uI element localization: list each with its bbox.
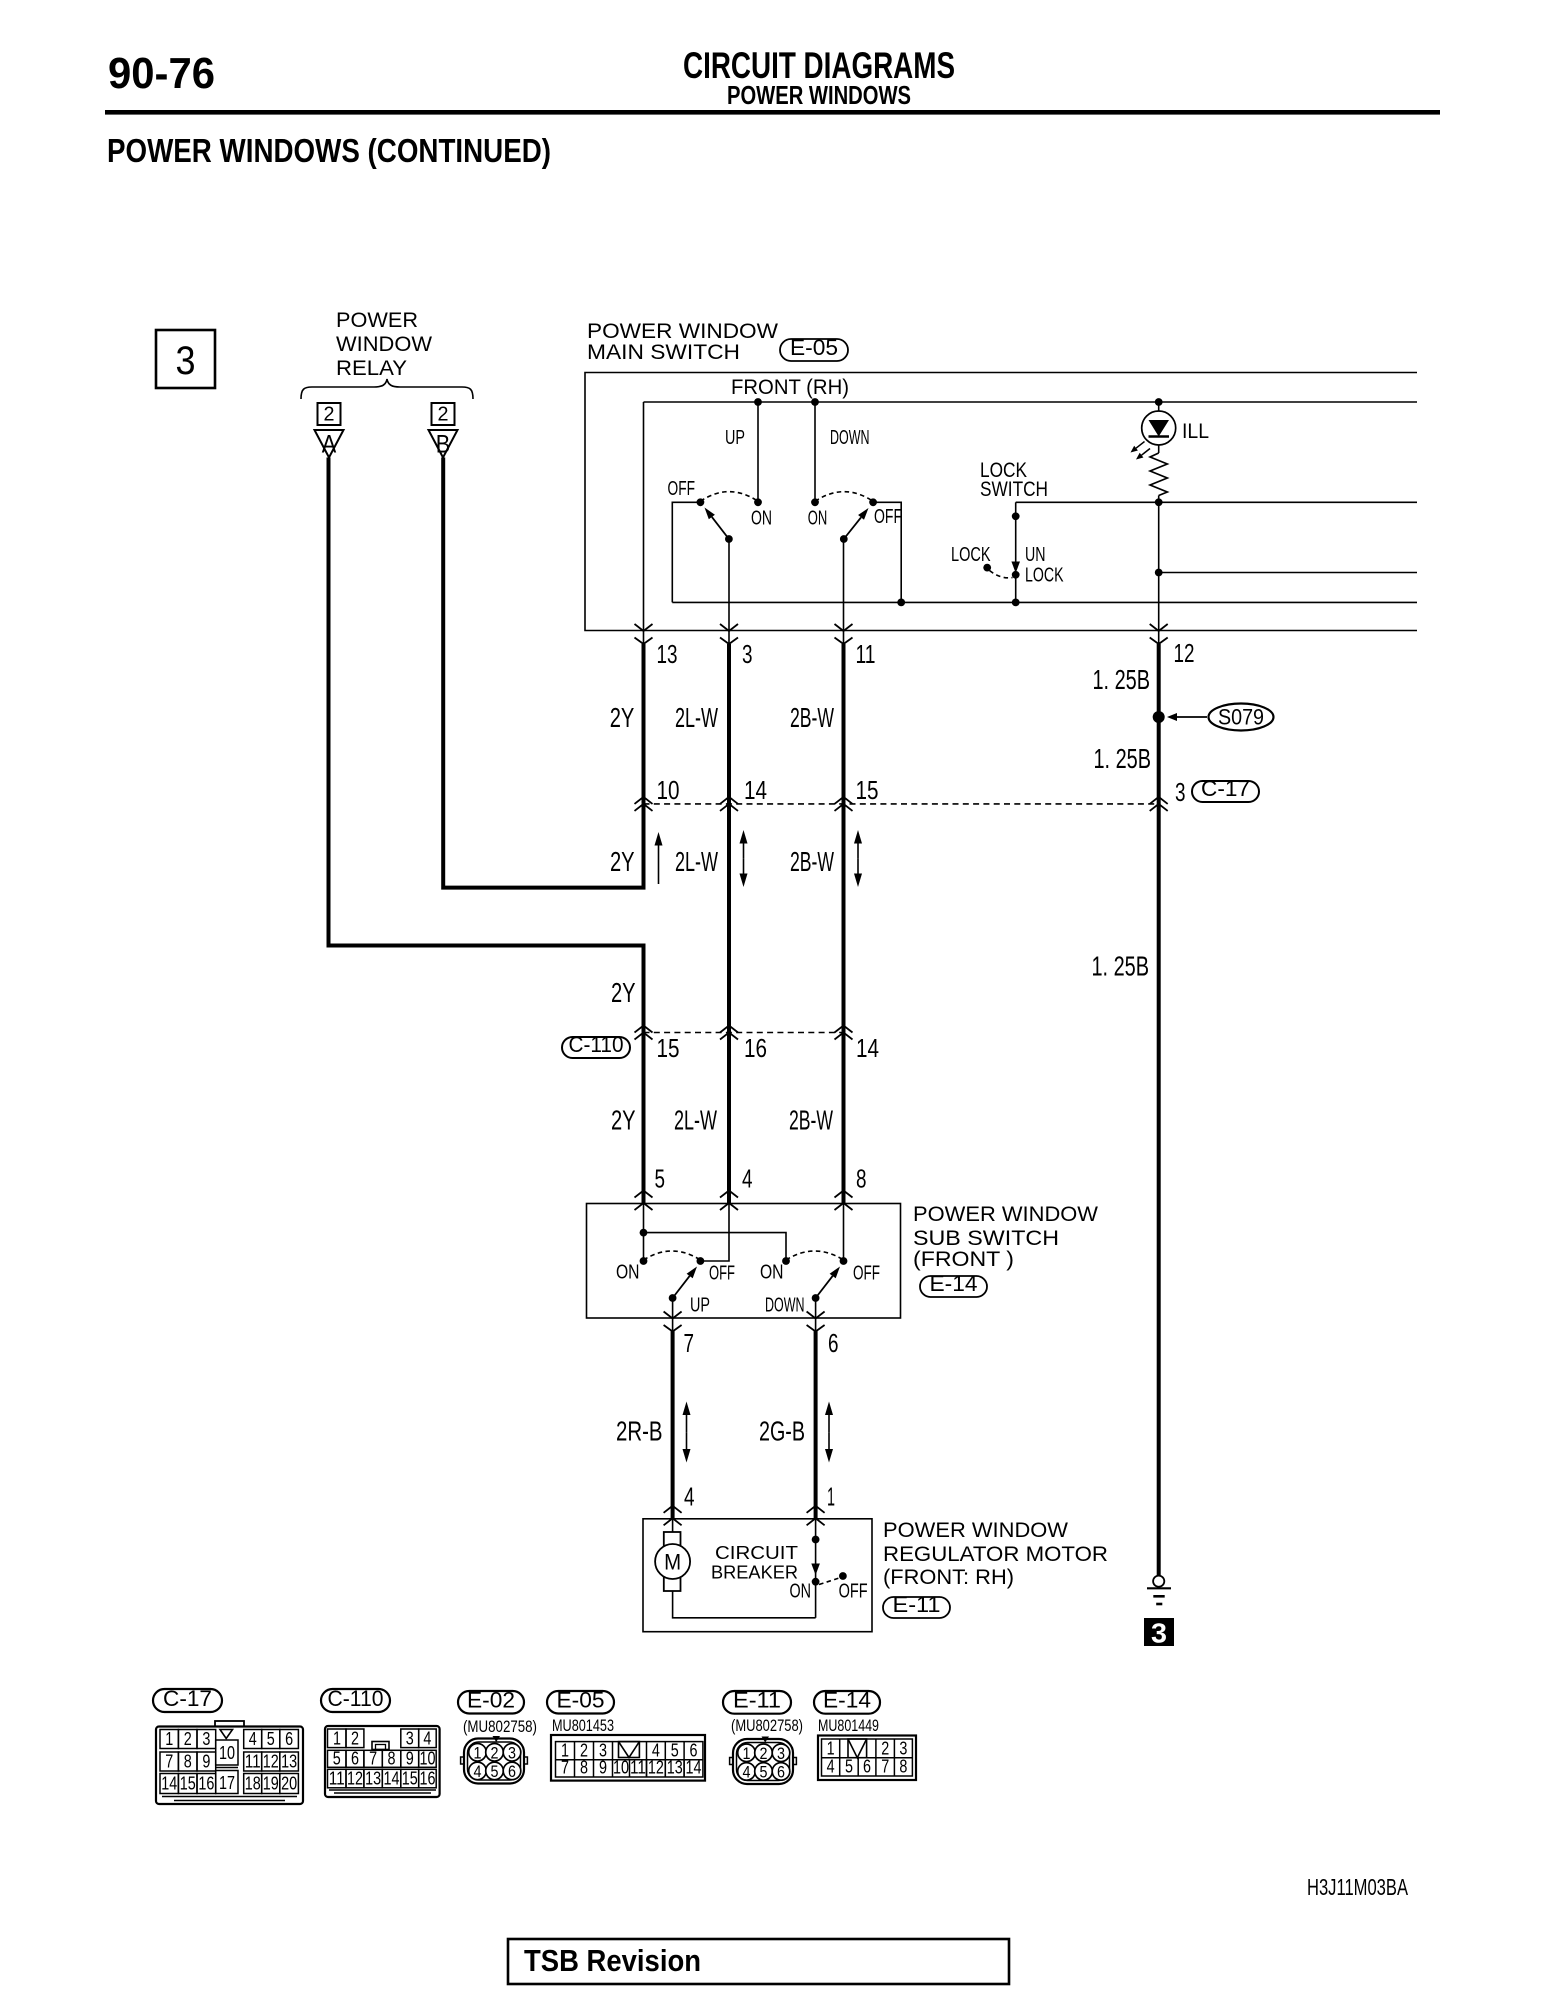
svg-text:C-110: C-110 [328,1686,384,1711]
svg-text:4: 4 [827,1756,835,1777]
lock bus line [1016,501,1417,503]
svg-text:14: 14 [686,1756,702,1777]
svg-text:10: 10 [613,1756,629,1777]
terminal triangle A [315,430,344,458]
svg-text:3: 3 [742,641,753,669]
svg-text:MU801453: MU801453 [552,1717,614,1735]
svg-text:8: 8 [856,1166,867,1194]
svg-text:1. 25B: 1. 25B [1092,951,1150,982]
sub left dashed throw arc [644,1251,701,1260]
sub left ON contact dot [640,1257,648,1265]
wire UP contact [757,402,759,502]
node on bus (DOWN wire) [811,398,819,406]
sub left pivot dot [669,1294,677,1302]
svg-text:11: 11 [630,1756,646,1777]
ILL lamp circle [1142,411,1176,445]
chevrons sub-switch pin8 entry [835,1191,853,1198]
svg-text:2: 2 [184,1728,192,1749]
sub right OFF contact dot [840,1257,848,1265]
svg-text:2: 2 [324,404,335,426]
svg-text:2Y: 2Y [611,977,636,1008]
breaker dashed throw [819,1578,839,1585]
S079 pointer arrow [1177,716,1207,718]
motor M body rect [664,1532,681,1591]
svg-text:E-05: E-05 [790,335,838,360]
svg-text:11: 11 [245,1751,261,1772]
svg-text:6: 6 [828,1330,839,1358]
wire pin6 inside sub switch [815,1298,817,1333]
svg-text:12: 12 [263,1751,279,1772]
ground bars [1147,1587,1171,1589]
svg-text:8: 8 [184,1751,192,1772]
svg-text:9: 9 [202,1751,210,1772]
svg-text:5: 5 [760,1762,768,1781]
svg-text:M: M [664,1550,681,1575]
connector row C-110 dashed line [644,1032,844,1034]
breaker moving contact arrow [811,1564,820,1576]
svg-text:(FRONT: RH): (FRONT: RH) [883,1565,1014,1589]
svg-text:14: 14 [744,777,767,805]
connector pinout E-02 [458,1691,524,1714]
svg-text:LOCK: LOCK [1025,565,1064,587]
splice S079 junction dot [1153,711,1165,723]
down-switch contact dots [811,498,819,506]
direction arrow both (2G-B) [828,1415,830,1432]
svg-text:DOWN: DOWN [765,1295,805,1317]
up-switch dashed throw arc [700,492,758,502]
svg-text:2Y: 2Y [611,1105,636,1136]
svg-text:5: 5 [267,1728,275,1749]
svg-text:3: 3 [406,1728,414,1749]
svg-text:19: 19 [263,1773,279,1794]
svg-text:OFF: OFF [839,1581,868,1603]
wire relay A to sub switch pin 5 [329,458,644,1204]
wire resistor to lock bus [1158,496,1160,503]
up-switch lever [712,517,729,539]
main switch lower bus [672,601,1417,603]
ILL lamp LED triangle [1149,420,1170,437]
svg-text:6: 6 [777,1762,785,1781]
svg-text:7: 7 [881,1756,889,1777]
svg-text:13: 13 [667,1756,683,1777]
sub switch box [587,1204,901,1319]
svg-text:POWER WINDOWS (CONTINUED): POWER WINDOWS (CONTINUED) [107,132,551,169]
chevrons C-110 pin16 [720,1026,738,1033]
svg-text:ON: ON [616,1262,640,1284]
svg-text:6: 6 [285,1728,293,1749]
svg-text:1. 25B: 1. 25B [1094,743,1152,774]
svg-text:3: 3 [202,1728,210,1749]
wire pin8 into sub switch [843,1204,845,1262]
svg-text:2: 2 [760,1744,768,1763]
wire 2Y pin13 to C-17 [642,644,646,804]
connector tag 2 (relay A) [318,403,341,425]
wire pin7 inside sub switch [672,1298,674,1333]
svg-text:12: 12 [347,1767,363,1788]
svg-text:1: 1 [743,1744,751,1763]
chevrons pin11 exit [835,624,853,631]
lock moving contact arrow [1011,562,1020,574]
svg-text:C-17: C-17 [163,1686,212,1711]
svg-text:UN: UN [1025,544,1046,566]
svg-text:6: 6 [863,1756,871,1777]
svg-text:7: 7 [369,1747,377,1768]
wire 1.25B pin12 to ground [1157,644,1161,1575]
resistor (illumination) [1150,453,1167,496]
svg-text:S079: S079 [1218,705,1264,730]
svg-text:14: 14 [856,1035,879,1063]
svg-text:15: 15 [402,1767,418,1788]
svg-text:UP: UP [690,1295,710,1317]
chevrons motor pin1 entry [807,1506,825,1513]
chevrons C-17 pin15 [835,797,853,804]
main switch box outline [585,373,1417,631]
up-switch OFF contact L-wire [672,502,700,602]
svg-text:H3J11M03BA: H3J11M03BA [1307,1874,1408,1900]
wire 2B-W pin11 down [842,644,846,1204]
svg-text:FRONT (RH): FRONT (RH) [731,375,849,399]
svg-text:16: 16 [419,1767,435,1788]
svg-text:12: 12 [1174,640,1195,668]
chevrons C-17 pin14 [720,797,738,804]
main switch inner top bus [644,401,1418,403]
breaker ON contact dot [812,1578,820,1586]
svg-text:4: 4 [684,1484,695,1512]
svg-text:CIRCUIT: CIRCUIT [715,1542,798,1563]
connector pinout E-14 [814,1691,880,1714]
svg-text:(MU802758): (MU802758) [731,1717,803,1735]
sub left OFF contact dot [697,1257,705,1265]
breaker node dot [812,1536,820,1544]
down-switch lever [844,517,861,539]
svg-text:90-76: 90-76 [108,49,215,98]
svg-text:10: 10 [219,1742,235,1763]
wire bus to ILL lamp [1158,402,1160,411]
svg-text:SWITCH: SWITCH [980,477,1048,501]
svg-text:E-11: E-11 [893,1592,941,1617]
svg-text:12: 12 [648,1756,664,1777]
svg-text:4: 4 [743,1762,751,1781]
svg-text:3: 3 [777,1744,785,1763]
terminal triangle B [429,430,458,458]
svg-text:2Y: 2Y [610,702,635,733]
svg-text:4: 4 [249,1728,257,1749]
svg-text:13: 13 [281,1751,297,1772]
direction arrow both (2B-W) [857,844,859,859]
svg-text:MAIN SWITCH: MAIN SWITCH [587,340,740,364]
svg-text:9: 9 [599,1756,607,1777]
down-switch dashed throw arc [815,492,873,502]
svg-text:OFF: OFF [853,1263,880,1285]
svg-text:5: 5 [333,1747,341,1768]
chevrons pin6 exit [807,1312,825,1319]
chevrons C-17 pin3 [1150,797,1168,804]
splice label S079 [1209,704,1274,731]
sub right pivot dot [812,1294,820,1302]
svg-text:REGULATOR MOTOR: REGULATOR MOTOR [883,1542,1108,1566]
lock dashed throw arc [990,571,1013,578]
svg-text:8: 8 [388,1747,396,1768]
connector capsule C-110 [562,1037,630,1058]
svg-text:2B-W: 2B-W [790,702,834,733]
motor M circle [655,1544,690,1579]
svg-text:13: 13 [365,1767,381,1788]
svg-text:9: 9 [406,1747,414,1768]
junction dot resistor/lock bus [1155,498,1163,506]
svg-text:ON: ON [760,1262,784,1284]
svg-text:POWER WINDOW: POWER WINDOW [883,1518,1069,1542]
svg-text:10: 10 [657,777,680,805]
lock switch body [1015,502,1017,602]
svg-text:15: 15 [856,777,879,805]
svg-text:MU801449: MU801449 [818,1717,879,1735]
breaker OFF dot [839,1572,847,1580]
wire pin4 into sub switch [700,1204,729,1262]
svg-text:18: 18 [245,1773,261,1794]
svg-text:E-05: E-05 [557,1688,605,1713]
direction arrow up (2Y) [658,846,660,885]
svg-text:OFF: OFF [709,1263,735,1285]
connector capsule E-05 [780,339,848,361]
svg-text:E-11: E-11 [733,1688,781,1713]
svg-text:14: 14 [161,1773,177,1794]
wire relay B elbow [443,458,643,888]
sub right ON contact dot [782,1257,790,1265]
svg-text:ON: ON [808,508,828,530]
svg-text:2: 2 [351,1728,359,1749]
svg-text:7: 7 [165,1751,173,1772]
svg-text:2G-B: 2G-B [759,1416,805,1447]
svg-text:(FRONT ): (FRONT ) [913,1247,1014,1271]
svg-text:3: 3 [1175,779,1186,807]
svg-text:1: 1 [165,1728,173,1749]
svg-text:14: 14 [384,1767,400,1788]
connector pinout E-05 [547,1691,614,1714]
svg-text:2: 2 [438,404,449,426]
svg-text:DOWN: DOWN [830,427,870,449]
connector capsule E-11 (label) [883,1597,950,1618]
chevrons sub-switch pin5 entry [635,1191,653,1198]
direction arrow both (2R-B) [686,1415,688,1432]
page link box 3 [156,330,215,388]
svg-text:1: 1 [827,1484,835,1512]
svg-text:6: 6 [351,1747,359,1768]
connector pinout C-17 [153,1689,222,1712]
svg-text:POWER: POWER [336,308,418,332]
svg-text:1: 1 [333,1728,341,1749]
svg-text:4: 4 [742,1166,753,1194]
connector pinout E-11 [723,1691,791,1714]
svg-text:13: 13 [657,641,678,669]
bus line y572 [1159,572,1417,574]
svg-text:15: 15 [657,1035,680,1063]
svg-text:2Y: 2Y [610,846,635,877]
direction arrow both (2L-W) [743,844,745,859]
svg-text:4: 4 [423,1728,431,1749]
up-switch pivot dot [725,535,733,543]
svg-text:2L-W: 2L-W [674,1105,717,1136]
chevrons pin3 exit [720,624,738,631]
svg-text:ON: ON [790,1581,812,1603]
svg-text:8: 8 [899,1756,907,1777]
down-switch OFF contact L-wire [873,502,901,602]
svg-text:16: 16 [744,1035,767,1063]
wire DOWN contact [814,402,816,502]
svg-text:3: 3 [176,339,196,383]
lock switch dots [1012,512,1020,520]
svg-text:ON: ON [751,508,772,530]
wire 2L-W pin3 down [727,644,731,1204]
svg-text:OFF: OFF [668,478,696,500]
svg-text:4: 4 [474,1762,482,1781]
svg-text:2L-W: 2L-W [675,846,718,877]
connector row C-17 dashed line [644,803,1159,805]
svg-text:C-110: C-110 [569,1032,624,1057]
chevrons motor pin4 entry [664,1506,682,1513]
svg-text:8: 8 [580,1756,588,1777]
chevrons pin12 exit [1150,624,1168,631]
node on bus (ILL wire) [1155,398,1163,406]
ground terminal circle [1153,1576,1164,1587]
wire ILL branch down [1158,502,1160,646]
TSB Revision box [508,1939,1009,1984]
svg-text:11: 11 [329,1767,345,1788]
motor box [643,1519,872,1632]
svg-text:5: 5 [845,1756,853,1777]
chevrons C-17 pin10 [635,797,653,804]
svg-text:ILL: ILL [1182,420,1209,443]
wire pin13 inside switch [643,402,645,646]
svg-text:LOCK: LOCK [951,544,991,566]
wire pin11 inside switch [843,539,845,646]
svg-text:5: 5 [655,1166,666,1194]
chevrons sub-switch pin4 entry [720,1191,738,1198]
connector pinout C-110 [321,1689,390,1712]
svg-text:POWER WINDOWS: POWER WINDOWS [727,80,911,110]
svg-text:C-17: C-17 [1201,776,1250,801]
svg-text:6: 6 [508,1762,516,1781]
wire 2R-B pin7 to motor [671,1331,675,1519]
svg-text:RELAY: RELAY [336,356,407,380]
sub right lever [816,1276,833,1298]
svg-text:11: 11 [856,641,876,669]
svg-text:UP: UP [725,427,745,449]
chevrons C-110 pin15 [635,1026,653,1033]
wire ILL to resistor [1158,445,1160,453]
junction dot y572 [1155,569,1163,577]
wire 2G-B pin6 to motor [814,1331,818,1519]
svg-text:E-02: E-02 [467,1688,515,1713]
svg-text:OFF: OFF [874,506,902,528]
connector capsule E-14 (label) [920,1276,987,1297]
header rule [105,110,1440,115]
chevrons C-110 pin14 [835,1026,853,1033]
node on bus (UP wire) [754,398,762,406]
ILL lamp cathode bar [1149,435,1170,437]
svg-text:WINDOW: WINDOW [336,332,433,356]
svg-text:17: 17 [219,1772,235,1793]
lock position dot [983,564,991,572]
svg-text:7: 7 [561,1756,569,1777]
svg-text:2: 2 [491,1743,499,1762]
sub left lever [673,1276,690,1298]
down-switch pivot dot [840,535,848,543]
junction dot lower bus [897,599,905,607]
svg-text:2R-B: 2R-B [616,1416,663,1447]
svg-text:E-14: E-14 [823,1688,871,1713]
svg-text:TSB Revision: TSB Revision [524,1943,701,1978]
ground ref black box 3 [1144,1618,1174,1646]
svg-text:7: 7 [684,1330,695,1358]
sub right dashed throw arc [786,1251,844,1260]
svg-text:B: B [436,431,451,459]
wire pin4 to motor symbol [672,1519,674,1532]
svg-text:20: 20 [281,1773,297,1794]
chevrons pin7 exit [664,1312,682,1319]
svg-text:E-14: E-14 [930,1271,978,1296]
svg-text:2B-W: 2B-W [789,1105,833,1136]
svg-text:1. 25B: 1. 25B [1093,664,1151,695]
svg-text:1: 1 [474,1743,482,1762]
wire pin1 breaker [815,1519,817,1618]
junction dot branch [640,1229,648,1237]
svg-text:BREAKER: BREAKER [711,1562,798,1583]
svg-text:5: 5 [491,1762,499,1781]
wire pin3 inside switch [728,539,730,646]
wire pin5 into sub switch [643,1204,645,1262]
svg-text:(MU802758): (MU802758) [463,1718,537,1736]
svg-text:A: A [322,431,337,459]
svg-text:2B-W: 2B-W [790,846,834,877]
svg-text:16: 16 [198,1773,214,1794]
chevrons pin13 exit [635,624,653,631]
up-switch contact dots [697,498,705,506]
svg-text:10: 10 [419,1747,435,1768]
svg-text:POWER WINDOW: POWER WINDOW [913,1202,1099,1226]
svg-text:2L-W: 2L-W [675,702,718,733]
ILL emission arrows [1136,442,1144,449]
svg-text:3: 3 [508,1743,516,1762]
brace power window relay [301,379,473,399]
connector tag 2 (relay B) [432,403,455,425]
wire motor to bottom bus [673,1591,816,1618]
sub switch branch bus [644,1233,787,1261]
connector capsule C-17 (row) [1192,781,1259,802]
svg-text:15: 15 [180,1773,196,1794]
svg-text:3: 3 [1151,1618,1167,1649]
